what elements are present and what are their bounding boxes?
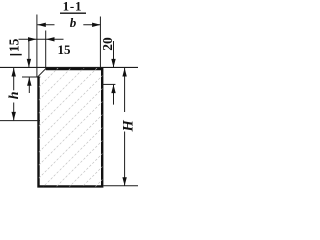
dimension h line upper with up arrowhead: [13, 68, 15, 90]
svg-text:15: 15: [7, 38, 22, 52]
dimension 15 horizontal right outside arrowhead: [46, 37, 55, 41]
svg-text:h: h: [7, 91, 22, 99]
svg-text:15: 15: [58, 42, 72, 57]
beam outline thick: [39, 69, 103, 186]
dimension 15 vertical lower outside arrow tail: [28, 77, 30, 93]
dimension 20 lower outside arrow tail: [113, 85, 115, 105]
dimension h line lower with down arrowhead: [13, 103, 15, 121]
dimension b right arrowhead: [92, 23, 101, 27]
dimension b line right segment: [83, 24, 100, 26]
title underline: [60, 12, 86, 14]
extension line H bottom: [103, 185, 138, 187]
dimension 20 line upper: [113, 41, 115, 67]
extension line h bottom: [0, 120, 40, 122]
dimension 15 vertical line upper: [28, 39, 30, 67]
hatching: [30, 0, 115, 240]
dimension 15 horizontal line: [19, 38, 64, 40]
dimension 20 down arrowhead: [111, 59, 115, 68]
svg-text:H: H: [120, 120, 136, 133]
label 15 underline dash: [10, 54, 22, 56]
extension line right (beam right face, above): [99, 17, 101, 68]
dimension 15 vertical lower up arrowhead: [27, 77, 31, 86]
extension line chamfer bottom level: [22, 76, 40, 78]
svg-text:20: 20: [100, 37, 115, 51]
dimension H line upper with up arrowhead: [124, 68, 126, 112]
extension line chamfer top corner: [45, 31, 47, 69]
dimension H line lower with down arrowhead: [124, 132, 126, 186]
svg-text:b: b: [70, 15, 77, 30]
dimension 15 horizontal left outside arrowhead: [28, 37, 37, 41]
dimension b line left segment: [37, 24, 54, 26]
floor reference line: [0, 66, 138, 68]
dimension b left arrowhead: [37, 23, 46, 27]
dimension 15 vertical down arrowhead: [27, 59, 31, 68]
extension line 20 bottom level: [102, 83, 115, 85]
extension line left (beam left face, above): [36, 15, 38, 78]
svg-text:1-1: 1-1: [63, 0, 83, 14]
chamfer diagonal: [37, 69, 45, 78]
dimension 20 lower up arrowhead: [111, 85, 115, 94]
